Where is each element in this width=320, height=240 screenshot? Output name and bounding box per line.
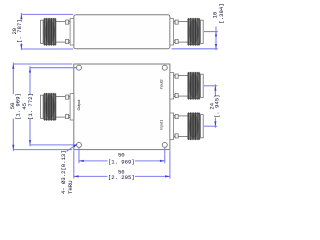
dimension 20 [.787] [21,13,73,50]
connector input2 (front view top right) [170,72,203,100]
svg-text:[2. 205]: [2. 205] [108,174,135,181]
svg-text:50: 50 [118,152,125,159]
svg-text:[1. 969]: [1. 969] [108,159,135,166]
svg-text:[. 787]: [. 787] [16,19,23,43]
connector right (top view) [170,18,203,46]
svg-text:4- Ø3.2[0.13]: 4- Ø3.2[0.13] [60,150,67,194]
dimension 50 [1.969] bottom [79,147,165,163]
svg-text:Input1: Input1 [160,120,164,130]
svg-text:Input2: Input2 [160,79,164,89]
hole bottom-right [162,142,167,147]
dimension 50 [1.969] left [13,63,72,152]
connector output (front view left) [41,93,74,121]
note 4- Ø3.2[0.13] THRU leader [67,146,76,152]
connector input1 (front view bottom right) [170,112,203,140]
top view body [74,15,170,49]
front view body [74,64,170,150]
dimension 56 [2.205] bottom [74,150,170,178]
hole top-right [162,65,167,70]
hole bottom-left [76,142,81,147]
connector left (top view) [41,18,74,46]
dimension 24 [.945] right [204,84,217,127]
dimension 10 [.394] [172,27,218,51]
svg-text:[. 945]: [. 945] [214,95,221,119]
svg-text:Output: Output [77,100,81,111]
svg-text:[.394]: [.394] [218,3,225,23]
svg-text:THRU: THRU [67,181,74,194]
hole top-left [76,65,81,70]
dimension 45 [1.772] left [30,66,77,146]
svg-text:[1. 772]: [1. 772] [27,93,34,120]
